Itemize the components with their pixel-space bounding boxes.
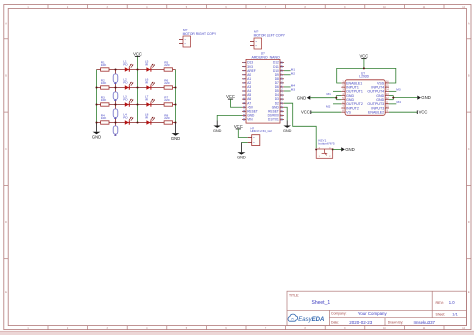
svg-text:PD: PD (123, 115, 128, 119)
svg-text:GND: GND (345, 147, 355, 152)
svg-text:button6*6*5: button6*6*5 (318, 141, 334, 145)
switch KEY1 button6*6*5 (316, 138, 335, 158)
power VCC arduino 5V (226, 94, 235, 99)
svg-text:MOTOR RIGHT COPY: MOTOR RIGHT COPY (183, 32, 217, 36)
svg-text:VCC: VCC (234, 124, 243, 129)
wire VCC to header pin1 (238, 129, 247, 138)
wire VCC to 5V pin (231, 99, 243, 107)
svg-text:VCC: VCC (133, 51, 142, 56)
svg-text:TITLE:: TITLE: (289, 293, 299, 297)
wire net M3 (D5) (284, 90, 291, 92)
svg-text:EasyEDA: EasyEDA (298, 317, 324, 323)
svg-text:VIN: VIN (247, 117, 253, 121)
svg-text:2020-02-23: 2020-02-23 (349, 320, 373, 325)
wire net M1 OUTPUT1 (333, 90, 341, 92)
svg-text:HDR-P-2.54_1x2: HDR-P-2.54_1x2 (251, 129, 273, 133)
svg-text:25: 25 (280, 81, 284, 84)
power VCC matrix (133, 51, 142, 56)
wire VCC L293D VS left (311, 111, 342, 113)
power VCC right (417, 110, 427, 115)
svg-text:M4: M4 (397, 100, 402, 104)
wire header pin2 to GND (241, 142, 247, 144)
svg-text:VCC: VCC (419, 110, 428, 115)
svg-text:19: 19 (280, 105, 284, 108)
svg-text:30: 30 (280, 61, 284, 64)
bottom canvas strip (0, 331, 474, 335)
svg-text:16: 16 (280, 117, 284, 120)
wire net M4 (D6) (284, 86, 291, 88)
LED L5 IR (145, 60, 155, 72)
svg-text:11: 11 (242, 101, 246, 104)
resistor R5 220 (164, 61, 172, 72)
wire VCC L293D right (389, 111, 417, 113)
ground L293D left (297, 95, 311, 100)
junction GND right (392, 97, 394, 99)
connector H? HDR-P-2.54_1x2 (248, 126, 273, 145)
svg-text:GND: GND (171, 136, 180, 141)
svg-text:ARDUINO_NANO: ARDUINO_NANO (252, 56, 280, 60)
ground arduino right (283, 121, 292, 133)
svg-text:Sheet_1: Sheet_1 (312, 300, 331, 306)
ground arduino left (213, 121, 222, 133)
junction GND left (335, 97, 337, 99)
power VCC header (234, 124, 243, 129)
svg-text:GND: GND (297, 95, 307, 100)
resistor R4 10K (101, 114, 109, 125)
svg-text:15: 15 (242, 117, 246, 120)
wire net M1 (D10) (284, 70, 291, 72)
power VCC left (301, 110, 311, 115)
wire row 3 (97, 104, 176, 106)
svg-text:M1: M1 (327, 92, 332, 96)
resistor R2 10K (101, 79, 109, 90)
svg-text:28: 28 (280, 69, 284, 72)
wire GND L293D right (389, 96, 417, 100)
wire GND arduino right (284, 107, 287, 120)
svg-text:PD: PD (123, 97, 128, 101)
wire net M4 OUTPUT3 (389, 103, 396, 105)
junction key left (315, 148, 317, 150)
junction dots matrix (96, 69, 177, 124)
svg-text:L293D: L293D (359, 75, 369, 79)
svg-text:1.0: 1.0 (449, 300, 455, 305)
wire net M2 OUTPUT2 (333, 103, 341, 105)
svg-text:M3: M3 (396, 87, 401, 91)
ground matrix right (171, 123, 180, 141)
svg-text:M2: M2 (326, 105, 331, 109)
svg-text:M3: M3 (291, 88, 296, 92)
wire row 2 (97, 87, 176, 89)
svg-text:MOTOR LEFT COPY: MOTOR LEFT COPY (254, 33, 286, 37)
phototransistor S3 (113, 105, 118, 122)
LED L7 IR (145, 95, 155, 107)
LED L4 PD (123, 113, 133, 125)
svg-text:PD: PD (123, 80, 128, 84)
LED L8 IR (145, 113, 155, 125)
ground key (341, 147, 355, 152)
svg-text:12: 12 (242, 105, 246, 108)
svg-text:Date:: Date: (331, 321, 339, 325)
resistor R6 220 (164, 79, 172, 90)
svg-text:27: 27 (280, 73, 284, 76)
svg-text:220: 220 (164, 98, 169, 102)
svg-text:1/1: 1/1 (452, 311, 458, 316)
resistor R8 220 (164, 114, 172, 125)
svg-text:M2: M2 (291, 71, 296, 75)
svg-text:21: 21 (280, 97, 284, 100)
svg-text:GND: GND (421, 95, 431, 100)
ground L293D right (417, 95, 431, 100)
svg-text:10K: 10K (101, 98, 107, 102)
svg-text:VCC: VCC (359, 54, 368, 59)
svg-text:29: 29 (280, 65, 284, 68)
svg-text:GND: GND (237, 155, 246, 160)
junction key right (332, 148, 334, 150)
wire GND L293D left (310, 96, 341, 100)
title block (287, 291, 467, 325)
svg-text:14: 14 (242, 113, 246, 116)
phototransistor S2 (113, 88, 118, 104)
svg-text:18: 18 (280, 109, 284, 112)
ground header (237, 143, 246, 160)
border row ticks (4, 39, 471, 259)
svg-text:PD: PD (123, 62, 128, 66)
svg-text:Your Company: Your Company (358, 311, 388, 316)
svg-text:Sheet:: Sheet: (436, 312, 446, 316)
svg-text:10K: 10K (101, 81, 107, 85)
svg-text:VCC: VCC (301, 110, 310, 115)
power VCC L293D top (359, 54, 368, 59)
svg-text:GND: GND (92, 134, 101, 139)
LED L1 PD (123, 60, 133, 72)
LED L6 IR (145, 78, 155, 90)
wire net M2 (D9) (284, 74, 291, 76)
svg-text:Company:: Company: (331, 312, 347, 316)
svg-text:VS: VS (346, 110, 351, 114)
svg-text:D1/TX1: D1/TX1 (268, 117, 279, 121)
svg-text:REV:: REV: (436, 301, 444, 305)
resistor R1 10K (101, 61, 109, 72)
svg-text:GND: GND (283, 129, 292, 133)
svg-text:10: 10 (242, 97, 246, 100)
wire VCC bus (137, 56, 139, 122)
EasyEDA logo (288, 314, 324, 323)
svg-text:VCC: VCC (226, 94, 235, 99)
svg-text:C: C (468, 148, 470, 151)
resistor R3 10K (101, 96, 109, 107)
connector M? MOTOR LEFT COPY (250, 29, 286, 49)
wire key to GND (333, 148, 342, 150)
svg-text:D: D (468, 221, 470, 224)
wire left bus (96, 70, 98, 123)
svg-text:17: 17 (280, 113, 284, 116)
wire net M3 OUTPUT4 (389, 90, 396, 92)
svg-text:220: 220 (164, 81, 169, 85)
phototransistor S1 (113, 70, 118, 87)
svg-text:10K: 10K (101, 116, 107, 120)
svg-text:Imseku337: Imseku337 (414, 320, 436, 325)
svg-text:D: D (5, 221, 7, 224)
wire D2 to key (284, 103, 316, 148)
driver U? L293D (341, 72, 389, 116)
wire row 4 (97, 122, 176, 124)
wire right bus (175, 70, 177, 123)
svg-text:20: 20 (280, 101, 284, 104)
svg-text:13: 13 (242, 109, 246, 112)
svg-text:GND: GND (213, 129, 222, 133)
mcu U? ARDUINO_NANO (242, 52, 284, 123)
wire GND arduino left (217, 115, 242, 120)
wire row 1 (97, 69, 176, 71)
svg-text:24: 24 (280, 85, 284, 88)
svg-text:23: 23 (280, 89, 284, 92)
svg-text:10K: 10K (101, 63, 107, 67)
svg-text:ENABLE2: ENABLE2 (368, 110, 384, 114)
svg-text:22: 22 (280, 93, 284, 96)
svg-text:220: 220 (164, 63, 169, 67)
connector M? MOTOR RIGHT COPY (179, 28, 217, 47)
LED L2 PD (123, 78, 133, 90)
svg-text:Drawn By:: Drawn By: (388, 321, 404, 325)
junction VCC top (363, 67, 365, 69)
svg-text:26: 26 (280, 77, 284, 80)
phototransistor S4 (113, 122, 118, 136)
svg-text:C: C (5, 148, 7, 151)
wire VCC top to enable pins (363, 59, 365, 69)
resistor R7 220 (164, 96, 172, 107)
LED L3 PD (123, 95, 133, 107)
ground matrix left (92, 123, 101, 140)
svg-text:220: 220 (164, 116, 169, 120)
